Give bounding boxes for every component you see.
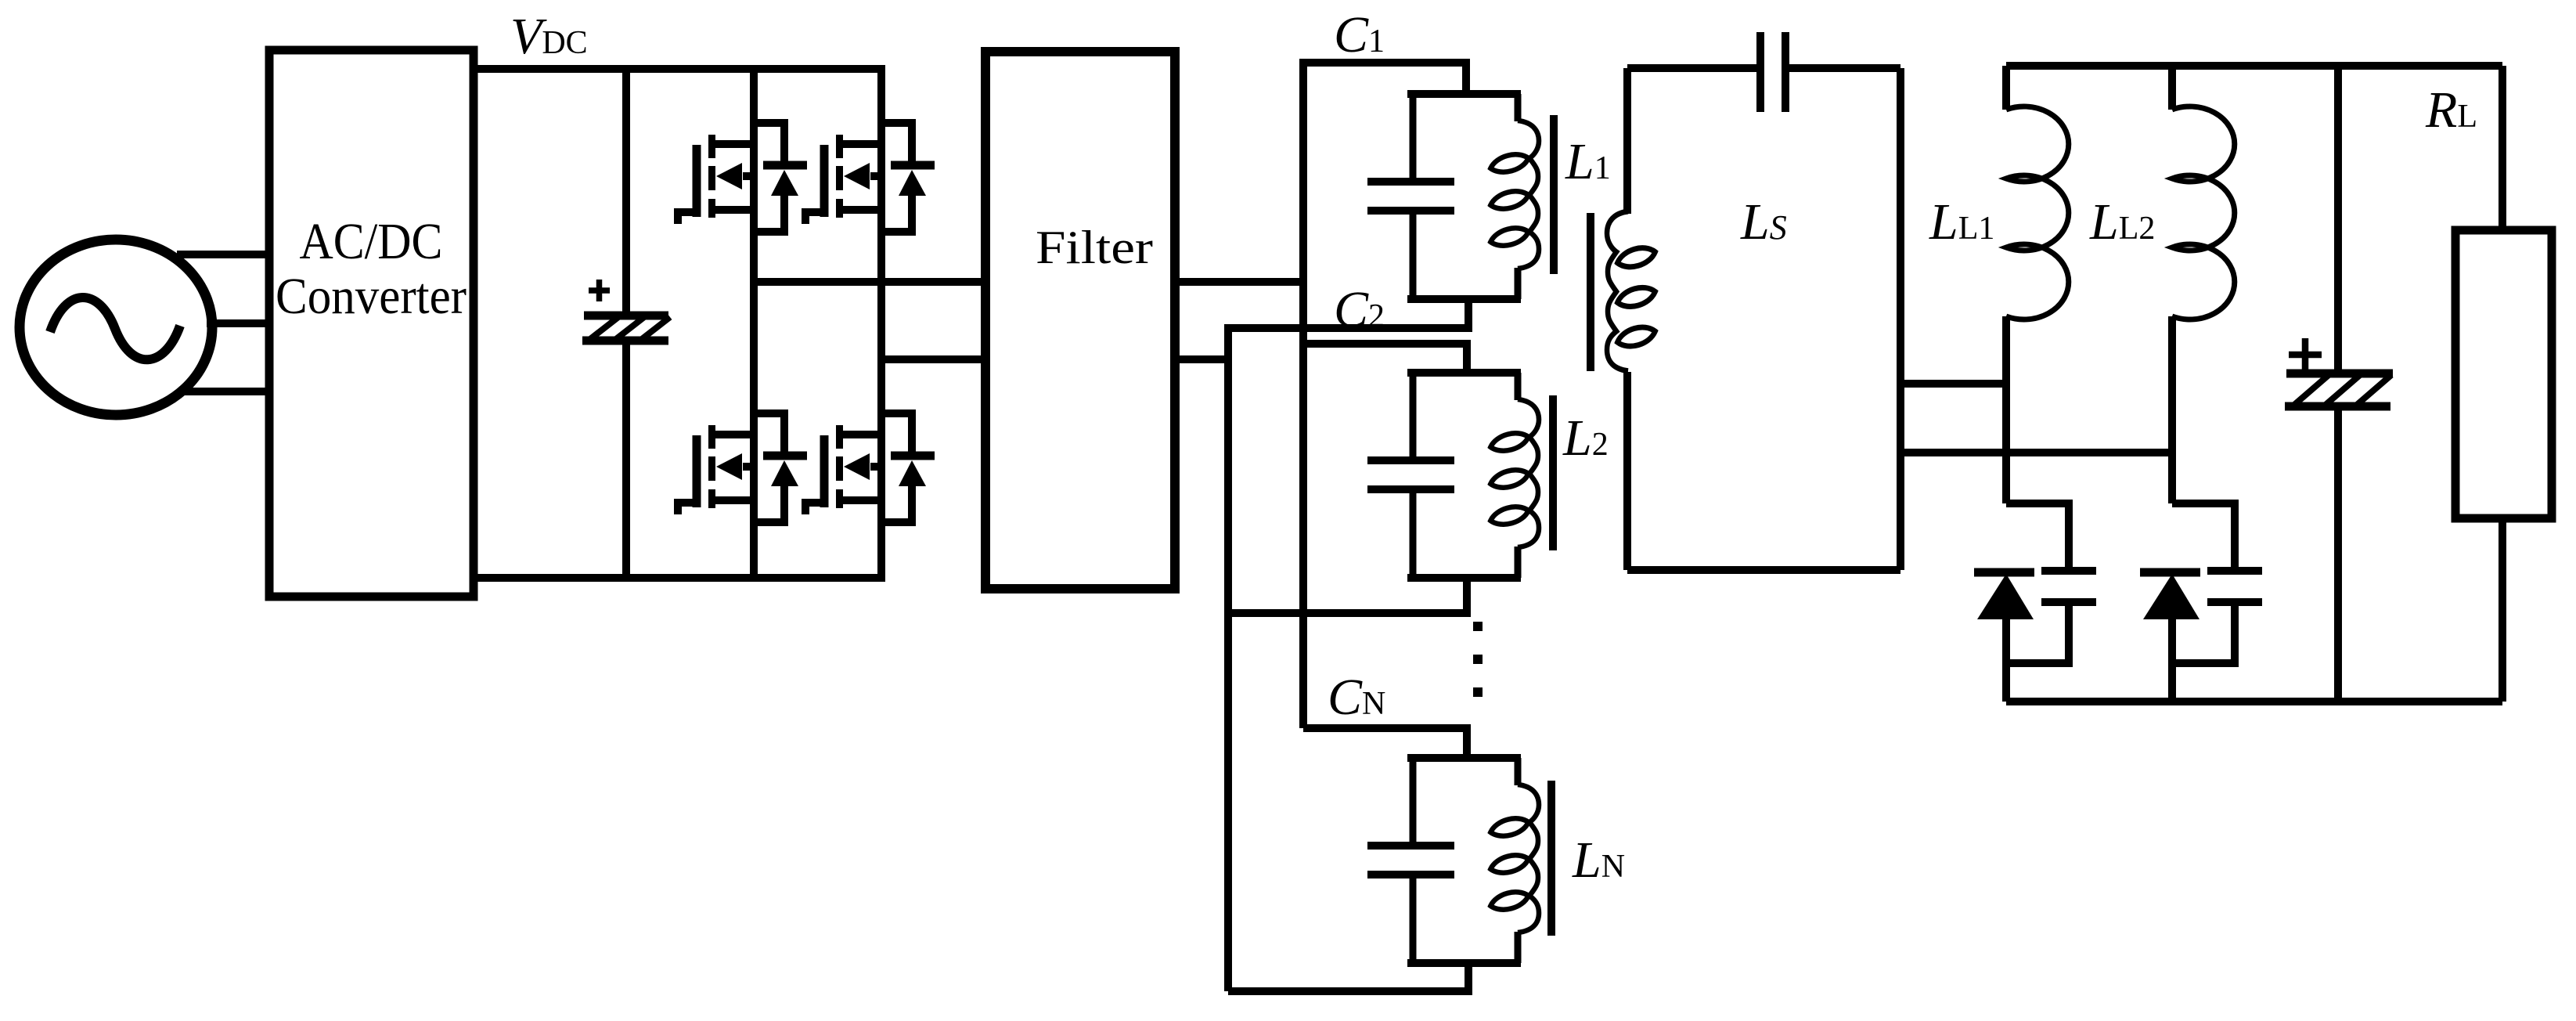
wire C2 bottom [1228,576,1471,613]
svg-text:Converter: Converter [276,268,467,325]
wire load right rail top [2499,66,2506,230]
wire receiver left vertical (lower) [1623,372,1631,570]
transistor Q2 [805,123,935,232]
resistor RL box [2455,230,2552,518]
wire receiver bottom [1627,566,1900,574]
rectifier device D1 [1974,503,2096,663]
ellipsis dot 2 [1473,655,1483,664]
tank C1 (C1 L1) [1367,91,1539,302]
wire rectifier top rail [2006,62,2502,70]
wire below D1 [2002,619,2010,702]
wire inverter right leg [877,69,885,578]
wire rectifier bottom rail [2006,698,2502,705]
AC source [20,240,212,415]
transistor Q4 [805,413,935,522]
wire inverter upper output to filter [754,278,988,286]
wire tap to LL2 branch [1900,449,2172,456]
wire filter lower output [1175,355,1232,363]
core bar of receiver coil Ls [1587,213,1594,371]
wire VDC top rail [474,65,885,73]
rectifier device D2 [2140,503,2262,663]
capacitor Cdc plus sign [589,280,610,301]
svg-text:Filter: Filter [1036,222,1153,273]
wire source to converter (top) [177,251,269,258]
capacitor Cs (series) [1760,32,1785,112]
wire below D2 [2168,619,2176,702]
transistor Q3 [678,413,807,522]
wire source to converter (middle) [207,319,269,327]
inductor LL2 [2172,106,2235,319]
block AC/DC Converter [269,50,474,597]
capacitor Cdc [582,316,670,341]
transistor Q1 [678,123,807,232]
wire receiver top [1627,64,1900,72]
wire CN bottom [1228,961,1472,991]
core bar of L2 [1549,395,1557,550]
wire source to converter (bottom) [178,388,269,395]
block Filter [985,52,1175,589]
wire DC bottom rail [474,574,885,582]
wire receiver right vertical [1897,68,1904,570]
wire tap to LL1 branch [1900,380,2006,388]
core bar of LN [1547,781,1555,936]
svg-text:AC/DC: AC/DC [300,213,443,270]
wire load right rail bottom [2499,518,2506,702]
node bus A (lower bus) [1224,324,1232,991]
capacitor Cout plus sign [2289,338,2322,371]
wire filter upper output [1175,278,1307,286]
inductor LL1 [2006,106,2069,319]
wire LL1 branch vertical [2002,66,2010,503]
core bar of L1 [1550,115,1558,274]
wire C2 top [1303,344,1471,374]
wire C1 bottom [1228,298,1472,328]
capacitor Cout vertical wire [2334,66,2342,702]
wire LL2 branch vertical [2168,66,2176,503]
wire CN top [1303,728,1471,759]
capacitor Cout [2285,373,2393,406]
wire C1 top [1303,63,1470,96]
ellipsis dot 1 [1473,622,1483,631]
coil Ls [1607,211,1657,371]
node bus B (upper bus) [1299,59,1307,728]
tank CN (CN LN) [1367,755,1539,966]
tank C2 (C2 L2) [1367,370,1539,581]
AC source sine wave [50,298,180,359]
ellipsis dot 3 [1473,687,1483,697]
wire receiver left vertical (upper) [1623,68,1631,214]
wire inverter lower output to filter [881,355,988,363]
wire inverter left leg [750,69,758,578]
capacitor Cdc vertical wire [622,69,630,578]
